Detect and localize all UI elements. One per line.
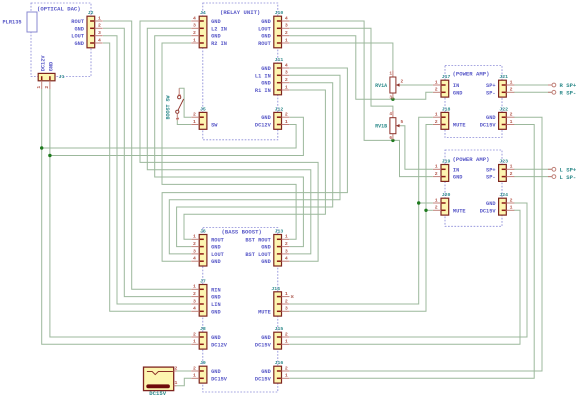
connector J8 (bass boost DC12V)	[191, 326, 228, 349]
svg-text:GND: GND	[211, 369, 221, 375]
svg-text:2: 2	[510, 87, 513, 93]
svg-text:2: 2	[285, 241, 288, 247]
svg-text:IN: IN	[453, 167, 459, 173]
svg-text:J15: J15	[275, 326, 284, 332]
svg-text:J5: J5	[200, 106, 206, 112]
module box POWER AMP (left channel)	[445, 150, 502, 226]
svg-text:RV1B: RV1B	[375, 124, 387, 130]
svg-text:3: 3	[285, 248, 288, 254]
component U1 PLR135 optical receiver	[3, 12, 38, 32]
svg-text:2: 2	[193, 331, 196, 337]
svg-text:2: 2	[285, 331, 288, 337]
svg-text:3: 3	[285, 70, 288, 76]
connector J19 (amp L input)	[433, 159, 462, 182]
terminal L SP+	[548, 167, 577, 174]
svg-text:MUTE: MUTE	[453, 208, 466, 214]
svg-text:DC12V: DC12V	[211, 342, 228, 348]
wire J23.2 to L SP-	[514, 176, 552, 178]
svg-text:J20: J20	[442, 192, 451, 198]
svg-text:4: 4	[285, 256, 288, 262]
svg-text:1: 1	[435, 197, 438, 203]
wire J10.1 ROUT to RV1A.1	[290, 43, 393, 70]
wire J10.3 LOUT to RV1B.4	[290, 28, 393, 111]
svg-text:4: 4	[193, 306, 196, 312]
svg-text:J1: J1	[59, 74, 65, 80]
svg-text:3: 3	[193, 23, 196, 29]
svg-text:DC15V: DC15V	[255, 376, 272, 382]
svg-text:SP+: SP+	[486, 83, 496, 89]
svg-text:2: 2	[193, 30, 196, 36]
svg-text:4: 4	[193, 256, 196, 262]
svg-text:1: 1	[510, 205, 513, 211]
wire J1.2 GND down to J8.2	[50, 89, 191, 337]
svg-text:GND: GND	[48, 62, 54, 72]
wire J22.2 GND to J16.2	[290, 117, 542, 371]
svg-text:R SP-: R SP-	[560, 90, 577, 97]
wire J12.2 GND to J1.2	[50, 117, 304, 155]
svg-text:J19: J19	[442, 159, 451, 165]
svg-text:2: 2	[178, 94, 183, 97]
switch SW1 BOOST SW (SPST)	[166, 88, 184, 120]
module box BASS BOOST	[203, 228, 278, 393]
connector J4 (relay input 2)	[191, 10, 227, 48]
potentiometer RV1B (volume L)	[375, 111, 403, 141]
svg-text:GND: GND	[261, 19, 271, 25]
connector J23 (amp L speaker out)	[486, 159, 514, 182]
wire J2.4 GND to J7.4 GND	[103, 43, 191, 311]
svg-text:J21: J21	[499, 74, 508, 80]
svg-text:1: 1	[435, 79, 438, 85]
wire J4.1 R2IN to J13.1 BST ROUT	[162, 43, 296, 239]
svg-text:RV1A: RV1A	[375, 83, 387, 89]
wire J2.2 GND to J7.2 GND	[103, 28, 191, 296]
junction RV1B.6 GND	[391, 139, 394, 142]
svg-text:GND: GND	[211, 245, 221, 251]
svg-text:1: 1	[285, 291, 288, 297]
svg-text:RIN: RIN	[211, 287, 221, 293]
svg-text:(POWER AMP): (POWER AMP)	[453, 156, 490, 163]
wire J18.1 to J14.2 MUTE	[290, 117, 433, 304]
svg-text:5: 5	[401, 120, 404, 125]
svg-text:1: 1	[510, 164, 513, 170]
svg-text:BOOST SW: BOOST SW	[166, 95, 172, 119]
connector J5 (relay switch)	[191, 106, 218, 129]
wire J11.2 GND to J6.2 GND	[177, 83, 333, 247]
svg-text:L SP-: L SP-	[560, 174, 577, 181]
svg-text:DC15V: DC15V	[211, 376, 228, 382]
svg-text:J17: J17	[442, 74, 451, 80]
svg-text:J12: J12	[275, 106, 284, 112]
connector J11 (relay input 1)	[255, 57, 290, 95]
svg-text:2: 2	[285, 77, 288, 83]
svg-text:J4: J4	[200, 10, 206, 16]
wire J24.1 DC15V to J15.1	[290, 210, 520, 344]
wire SW1 bottom to J5.1	[177, 120, 191, 124]
svg-text:R1 IN: R1 IN	[255, 88, 271, 94]
connector J2 (optical DAC output)	[71, 10, 102, 48]
svg-text:J18: J18	[442, 106, 451, 112]
svg-text:J24: J24	[499, 192, 508, 198]
svg-text:GND: GND	[211, 34, 221, 40]
svg-text:1: 1	[510, 79, 513, 85]
svg-text:LOUT: LOUT	[258, 26, 272, 32]
svg-text:L SP+: L SP+	[560, 167, 577, 174]
svg-text:GND: GND	[74, 26, 84, 32]
svg-text:2: 2	[285, 298, 288, 304]
wire J2.3 LOUT to J7.3 LIN	[103, 36, 191, 304]
svg-text:1: 1	[98, 15, 101, 21]
svg-text:GND: GND	[211, 259, 221, 265]
svg-text:GND: GND	[261, 335, 271, 341]
wire J24.2 GND to J15.2	[290, 203, 527, 337]
svg-text:J14: J14	[271, 286, 280, 292]
svg-text:1: 1	[176, 117, 181, 120]
svg-text:J8: J8	[200, 326, 206, 332]
connector J17 (amp R input)	[433, 74, 462, 97]
svg-text:3: 3	[389, 95, 392, 100]
svg-text:LIN: LIN	[211, 302, 221, 308]
svg-text:1: 1	[193, 373, 196, 379]
svg-text:2: 2	[510, 197, 513, 203]
wire J23.1 to L SP+	[514, 168, 552, 170]
junction RV1A.3 GND	[391, 98, 394, 101]
wire BT1.1 to J9.1	[177, 378, 192, 386]
svg-text:1: 1	[285, 119, 288, 125]
svg-text:J9: J9	[200, 360, 206, 366]
svg-text:GND: GND	[211, 295, 221, 301]
svg-text:2: 2	[193, 365, 196, 371]
svg-text:1: 1	[174, 380, 177, 386]
terminal L SP-	[548, 174, 576, 181]
svg-text:GND: GND	[261, 34, 271, 40]
wire BT1.2 to J9.2	[177, 370, 192, 372]
connector J12 (relay supply)	[255, 106, 290, 129]
wire RV1B.5 wiper to J19.1 IN	[400, 126, 433, 170]
wire J21.2 to R SP-	[514, 91, 552, 93]
connector J21 (amp R speaker out)	[486, 74, 514, 97]
svg-text:SW: SW	[211, 123, 218, 129]
wire J10.2 GND to RV1A.3 and J17.2	[290, 36, 433, 99]
wire J22.1 DC15V to J16.1	[290, 125, 535, 379]
svg-text:GND: GND	[261, 245, 271, 251]
svg-text:J11: J11	[275, 57, 284, 63]
svg-text:2: 2	[435, 119, 438, 125]
svg-text:1: 1	[510, 119, 513, 125]
svg-text:GND: GND	[74, 41, 84, 47]
svg-text:BST ROUT: BST ROUT	[245, 237, 271, 243]
svg-text:2: 2	[285, 30, 288, 36]
svg-text:ROUT: ROUT	[258, 41, 272, 47]
svg-text:4: 4	[285, 15, 288, 21]
svg-text:2: 2	[510, 112, 513, 118]
svg-text:ROUT: ROUT	[71, 19, 85, 25]
svg-text:2: 2	[285, 365, 288, 371]
svg-text:(POWER AMP): (POWER AMP)	[453, 71, 490, 78]
svg-text:1: 1	[285, 373, 288, 379]
svg-text:(BASS BOOST): (BASS BOOST)	[222, 229, 262, 236]
svg-text:3: 3	[285, 23, 288, 29]
connector J7 (bass boost input)	[191, 279, 220, 317]
svg-text:R SP+: R SP+	[560, 82, 577, 89]
svg-text:LOUT: LOUT	[211, 252, 225, 258]
svg-text:6: 6	[389, 136, 392, 141]
svg-text:GND: GND	[453, 175, 463, 181]
terminal R SP+	[548, 82, 577, 89]
svg-text:1: 1	[435, 164, 438, 170]
connector J15 (amp2 supply link)	[255, 326, 290, 349]
junction mute rail 2 at J20.2	[424, 209, 427, 212]
svg-text:2: 2	[510, 171, 513, 177]
svg-text:2: 2	[435, 171, 438, 177]
svg-text:J6: J6	[200, 229, 206, 235]
connector J6 (bass boost direct out)	[191, 229, 224, 267]
svg-text:3: 3	[193, 298, 196, 304]
svg-text:4: 4	[389, 112, 392, 117]
svg-text:(RELAY UNIT): (RELAY UNIT)	[220, 9, 260, 16]
svg-text:DC12V: DC12V	[40, 55, 46, 72]
svg-text:BST LOUT: BST LOUT	[245, 252, 271, 258]
svg-text:(OPTICAL DAC): (OPTICAL DAC)	[37, 5, 81, 12]
svg-text:SP-: SP-	[486, 175, 496, 181]
connector J16 (amp1 supply link)	[255, 360, 290, 383]
svg-text:GND: GND	[261, 259, 271, 265]
svg-text:DC15V: DC15V	[480, 123, 497, 129]
wire J20.1 to mute rail	[419, 202, 433, 204]
svg-text:2: 2	[193, 241, 196, 247]
svg-text:L1 IN: L1 IN	[255, 73, 271, 79]
svg-text:J23: J23	[499, 159, 508, 165]
svg-text:1: 1	[389, 72, 392, 77]
connector J20 (amp L mute)	[433, 192, 466, 215]
junction GND rail at J1.2	[48, 154, 51, 157]
svg-text:MUTE: MUTE	[453, 123, 466, 129]
svg-text:GND: GND	[211, 335, 221, 341]
wire J18.2 to J14.3 MUTE	[290, 125, 433, 312]
svg-text:GND: GND	[453, 90, 463, 96]
svg-text:GND: GND	[211, 19, 221, 25]
svg-text:4: 4	[193, 15, 196, 21]
svg-text:2: 2	[435, 205, 438, 211]
svg-text:2: 2	[44, 86, 50, 89]
connector J10 (relay output)	[258, 10, 289, 48]
connector J13 (bass boost boosted out)	[245, 229, 289, 267]
svg-text:J13: J13	[275, 229, 284, 235]
svg-text:1: 1	[435, 112, 438, 118]
svg-text:L2 IN: L2 IN	[211, 26, 227, 32]
svg-text:DC15V: DC15V	[480, 208, 497, 214]
svg-text:R2 IN: R2 IN	[211, 41, 227, 47]
svg-text:3: 3	[285, 306, 288, 312]
potentiometer RV1A (volume R)	[375, 70, 403, 100]
wire J4.2 GND to J13.2 GND	[155, 36, 304, 247]
svg-text:SP+: SP+	[486, 167, 496, 173]
svg-text:ROUT: ROUT	[211, 237, 225, 243]
svg-text:J7: J7	[200, 279, 206, 285]
wire J21.1 to R SP+	[514, 84, 552, 86]
connector J22 (amp R supply)	[480, 106, 515, 129]
wire RV1A.2 wiper to J17.1 IN	[400, 84, 433, 86]
svg-text:GND: GND	[486, 201, 496, 207]
svg-text:GND: GND	[261, 115, 271, 121]
power supply BT1 DC15V module	[144, 365, 178, 397]
no-connect J14.1	[291, 295, 293, 297]
wire J11.3 L1IN to J6.3 LOUT	[169, 75, 340, 254]
svg-text:2: 2	[98, 23, 101, 29]
wire SW1 top to J5.2	[179, 88, 191, 117]
connector J14 (bass boost mute)	[258, 286, 289, 316]
svg-text:1: 1	[285, 37, 288, 43]
module box RELAY UNIT	[203, 3, 278, 140]
svg-text:2: 2	[193, 291, 196, 297]
svg-text:PLR135: PLR135	[3, 19, 22, 25]
svg-text:GND: GND	[486, 115, 496, 121]
wire J11.1 R1IN to J6.1 ROUT	[184, 90, 325, 239]
svg-text:GND: GND	[261, 66, 271, 72]
svg-text:1: 1	[193, 284, 196, 290]
svg-text:DC15V: DC15V	[255, 342, 272, 348]
svg-text:J16: J16	[275, 360, 284, 366]
wire J10.4 GND to RV1B.6 and J19.2	[290, 21, 433, 177]
svg-text:DC12V: DC12V	[255, 123, 272, 129]
svg-text:2: 2	[174, 365, 177, 371]
svg-text:LOUT: LOUT	[71, 34, 85, 40]
svg-text:IN: IN	[453, 83, 459, 89]
junction mute rail 1 at J20.1	[417, 201, 420, 204]
wire J20.2 to mute rail	[426, 209, 433, 211]
svg-text:GND: GND	[261, 81, 271, 87]
svg-text:2: 2	[435, 87, 438, 93]
wire J4.4 GND to J13.4 GND	[140, 21, 318, 261]
wire J12.1 DC12V to J1.1	[42, 125, 296, 149]
svg-text:1: 1	[285, 234, 288, 240]
svg-text:1: 1	[193, 234, 196, 240]
svg-text:GND: GND	[261, 369, 271, 375]
svg-text:1: 1	[193, 119, 196, 125]
svg-text:1: 1	[193, 339, 196, 345]
svg-text:GND: GND	[211, 309, 221, 315]
svg-text:3: 3	[193, 248, 196, 254]
svg-text:1: 1	[36, 86, 42, 89]
svg-text:3: 3	[98, 30, 101, 36]
terminal R SP-	[548, 90, 576, 97]
wire J11.4 GND to J6.4 GND	[162, 68, 347, 261]
svg-text:J10: J10	[275, 10, 284, 16]
svg-text:J2: J2	[88, 10, 94, 16]
svg-text:4: 4	[285, 62, 288, 68]
module box OPTICAL DAC	[31, 3, 91, 77]
svg-text:DC15V: DC15V	[149, 390, 166, 397]
svg-text:SP-: SP-	[486, 90, 496, 96]
connector J1 (DC12V input)	[36, 55, 65, 89]
svg-text:2: 2	[193, 112, 196, 118]
svg-text:1: 1	[285, 84, 288, 90]
svg-text:4: 4	[98, 37, 101, 43]
svg-text:J22: J22	[499, 106, 508, 112]
module box POWER AMP (right channel)	[445, 66, 502, 138]
svg-text:1: 1	[193, 37, 196, 43]
connector J24 (amp L supply)	[480, 192, 515, 215]
junction DC12V rail at J1.1	[40, 146, 43, 149]
svg-text:1: 1	[285, 339, 288, 345]
connector J9 (bass boost DC15V)	[191, 360, 228, 383]
wire J4.3 L2IN to J13.3 BST LOUT	[147, 28, 310, 254]
connector J18 (amp R mute)	[433, 106, 466, 129]
wire J2.1 ROUT to J7.1 RIN	[103, 21, 191, 289]
svg-text:MUTE: MUTE	[258, 309, 271, 315]
svg-text:2: 2	[401, 79, 404, 84]
svg-text:2: 2	[285, 112, 288, 118]
wire J1.1 DC12V down to J8.1	[42, 89, 191, 344]
